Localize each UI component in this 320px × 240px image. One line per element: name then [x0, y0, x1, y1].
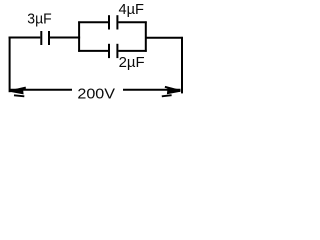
arrowhead: right, pointing at right wire	[162, 87, 181, 97]
svg-text:3µF: 3µF	[27, 10, 51, 27]
wire: top-left horizontal segment	[9, 37, 41, 39]
wire: left vertical	[9, 37, 11, 93]
wire: voltage dimension line left segment	[10, 89, 72, 91]
wire: top branch right of C2	[118, 21, 146, 23]
svg-text:200V: 200V	[77, 86, 115, 103]
svg-text:4µF: 4µF	[119, 1, 145, 18]
node: parallel block right vertical bus	[145, 21, 147, 51]
wire: voltage dimension line right segment	[123, 89, 181, 91]
wire: top branch left of C2	[78, 21, 108, 23]
arrowhead: left, pointing at left wire	[9, 88, 25, 97]
wire: right vertical	[181, 37, 183, 94]
wire: top middle segment between C1 and parallel block	[50, 37, 80, 39]
node: parallel block left vertical bus	[78, 21, 80, 51]
capacitor C2 (4uF) plates	[109, 15, 117, 29]
wire: bottom branch left of C3	[78, 50, 108, 52]
wire: bottom branch right of C3	[118, 50, 146, 52]
capacitor C1 (3uF) plates	[41, 31, 49, 45]
wire: exit horizontal to right side	[145, 37, 183, 39]
svg-text:2µF: 2µF	[119, 54, 145, 71]
capacitor C3 (2uF) plates	[109, 44, 117, 58]
